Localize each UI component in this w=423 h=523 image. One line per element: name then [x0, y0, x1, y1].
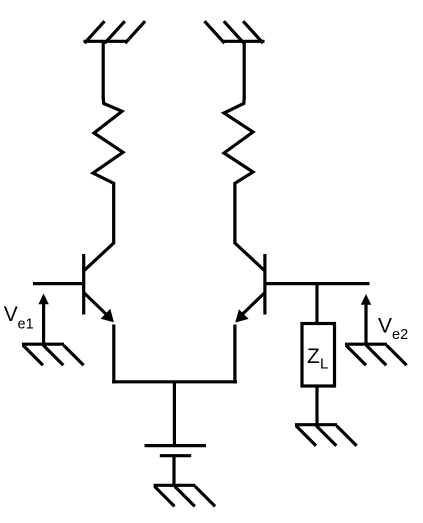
transistor Q2 emitter with arrow — [235, 293, 264, 323]
wire: ZL bottom stem — [315, 386, 318, 425]
resistor RC1 (left collector resistor) — [93, 98, 123, 183]
wire: battery to ground — [172, 456, 175, 486]
label Ve1 — [4, 303, 34, 332]
supply rail symbol right (hatches up-left) — [205, 21, 265, 43]
svg-text:L: L — [320, 356, 328, 373]
transistor Q1 emitter with arrow — [84, 293, 114, 322]
svg-text:Z: Z — [307, 345, 320, 368]
wire: Q1 emitter down lead — [112, 325, 115, 384]
wire: tail stem down to current source — [173, 382, 176, 446]
supply rail symbol left (chassis-style, hatches up-right) — [84, 21, 146, 43]
node Ve1 arrow — [38, 294, 48, 345]
node Ve2 arrow — [361, 294, 371, 344]
ground (under Ve2) — [345, 344, 407, 365]
svg-text:V: V — [4, 303, 18, 326]
svg-text:V: V — [378, 315, 392, 338]
impedance ZL box — [302, 324, 335, 387]
transistor Q1 (left NPN) base bar — [82, 254, 85, 315]
wire: resistor RC1 bottom lead to collector — [84, 182, 114, 271]
wire: ZL top stem — [315, 284, 318, 324]
wire: Q2 base lead — [265, 282, 370, 285]
wire: right supply stem — [243, 41, 246, 99]
battery / DC source (long and short plates) — [145, 446, 207, 456]
ground (under ZL) — [295, 425, 357, 446]
ground (tail, bottom middle) — [154, 485, 216, 506]
wire: emitter junction horizontal — [112, 380, 237, 383]
label Ve2 — [378, 315, 408, 343]
svg-text:e1: e1 — [18, 316, 34, 332]
svg-text:e2: e2 — [392, 327, 408, 343]
wire: resistor RC2 bottom lead to collector — [235, 182, 265, 271]
wire: Q2 emitter down lead — [233, 325, 236, 384]
label ZL — [307, 345, 328, 373]
transistor Q2 (right NPN, mirrored) base bar — [263, 254, 266, 315]
wire: left supply stem — [102, 41, 105, 99]
wire: Q1 base lead — [33, 282, 84, 285]
resistor RC2 (right collector resistor) — [224, 98, 253, 183]
ground (under Ve1) — [22, 344, 84, 365]
